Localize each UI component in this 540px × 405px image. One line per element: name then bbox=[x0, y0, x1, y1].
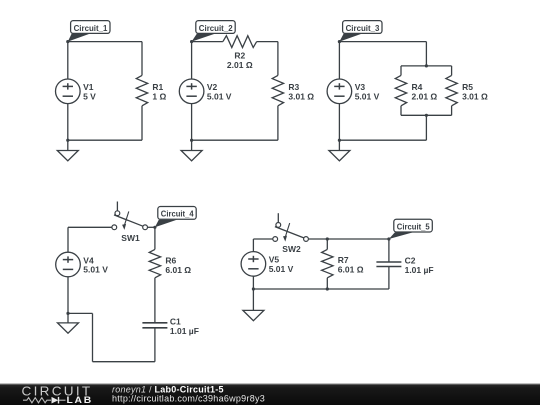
wire V5 top stub bbox=[252, 239, 254, 252]
svg-text:Circuit_4: Circuit_4 bbox=[161, 209, 194, 219]
svg-text:R5: R5 bbox=[462, 82, 473, 92]
svg-text:5.01 V: 5.01 V bbox=[269, 264, 294, 274]
wire R3 bottom bbox=[277, 106, 279, 140]
junction R7 bottom node bbox=[326, 287, 329, 290]
svg-text:2.01 Ω: 2.01 Ω bbox=[412, 92, 438, 102]
resistor R5 bbox=[446, 75, 457, 105]
wire parallel top bracket bbox=[401, 65, 452, 67]
logo diode bbox=[52, 397, 59, 404]
svg-text:http://circuitlab.com/c39ha6wp: http://circuitlab.com/c39ha6wp9r8y3 bbox=[112, 393, 265, 403]
junction V1 bottom node bbox=[66, 139, 69, 142]
svg-text:SW1: SW1 bbox=[121, 233, 140, 243]
wire R5 top stub bbox=[451, 66, 453, 76]
capacitor C2 bbox=[376, 262, 401, 267]
svg-text:C2: C2 bbox=[405, 255, 416, 265]
wire V5 to SW2 bbox=[253, 238, 272, 240]
wire bottom run C4 bbox=[93, 361, 155, 363]
wire bottom rail C2 bbox=[192, 139, 278, 141]
wire down to parallel pair bbox=[425, 42, 427, 66]
wire top rail C1 bbox=[68, 41, 142, 43]
svg-text:R7: R7 bbox=[338, 255, 349, 265]
wire R1 bottom bbox=[141, 106, 143, 140]
voltage source V4 bbox=[56, 252, 81, 277]
wire R4 bottom stub bbox=[400, 106, 402, 116]
wire top rail C3 bbox=[339, 41, 426, 43]
svg-text:5.01 V: 5.01 V bbox=[355, 92, 380, 102]
wire V3 top stub bbox=[338, 42, 340, 79]
wire down from parallel pair bbox=[425, 115, 427, 140]
junction V3 bottom node bbox=[338, 139, 341, 142]
wire bottom rail C3 bbox=[339, 139, 426, 141]
junction V5 bottom node bbox=[252, 287, 255, 290]
voltage source V1 bbox=[56, 79, 81, 104]
resistor R7 bbox=[322, 249, 333, 277]
svg-text:R3: R3 bbox=[288, 82, 299, 92]
voltage source V2 bbox=[179, 79, 204, 104]
svg-text:Circuit_1: Circuit_1 bbox=[74, 23, 108, 33]
wire R7 top stub bbox=[326, 239, 328, 249]
resistor R2 bbox=[223, 36, 257, 48]
wire up left C4 bbox=[92, 313, 94, 361]
resistor R1 bbox=[136, 75, 147, 105]
wire V4 top stub bbox=[67, 227, 69, 252]
wire bottom rail C5 bbox=[253, 288, 389, 290]
wire R5 bottom stub bbox=[451, 106, 453, 116]
svg-text:6.01 Ω: 6.01 Ω bbox=[165, 265, 191, 275]
wire C1cap down bbox=[154, 328, 156, 362]
svg-text:5.01 V: 5.01 V bbox=[207, 92, 232, 102]
svg-text:6.01 Ω: 6.01 Ω bbox=[338, 265, 364, 275]
node Circuit_1 junction bbox=[66, 40, 69, 43]
svg-text:R4: R4 bbox=[412, 82, 423, 92]
svg-text:C1: C1 bbox=[170, 316, 181, 326]
wire V4 to SW1 bbox=[68, 226, 112, 228]
wire top rail left C2 bbox=[192, 41, 223, 43]
wire V5 bottom stub bbox=[252, 276, 254, 289]
wire C2cap bottom bbox=[388, 267, 390, 290]
wire R6 to C1cap bbox=[154, 278, 156, 323]
wire node to R6 bbox=[154, 227, 156, 249]
svg-text:2.01 Ω: 2.01 Ω bbox=[227, 60, 253, 70]
junction R7 top node bbox=[326, 237, 329, 240]
wire bottom rail C1 bbox=[68, 139, 142, 141]
junction V4 bottom node bbox=[66, 312, 69, 315]
net label Circuit_3 bbox=[339, 21, 382, 42]
resistor R4 bbox=[395, 75, 406, 105]
wire C2cap top bbox=[388, 239, 390, 262]
wire V3 bottom stub bbox=[338, 104, 340, 141]
wire top rail right C2 bbox=[257, 41, 278, 43]
ground C5 bbox=[243, 289, 264, 321]
footer bar bbox=[0, 384, 540, 405]
svg-text:SW2: SW2 bbox=[282, 244, 301, 254]
junction parallel bottom node bbox=[425, 114, 428, 117]
svg-text:R6: R6 bbox=[165, 255, 176, 265]
net label Circuit_5 bbox=[389, 219, 432, 239]
net label Circuit_2 bbox=[192, 21, 236, 42]
node Circuit_3 junction bbox=[338, 40, 341, 43]
svg-text:R1: R1 bbox=[152, 82, 163, 92]
wire R7 bottom stub bbox=[326, 278, 328, 289]
net label Circuit_4 bbox=[155, 207, 196, 228]
svg-text:1.01 µF: 1.01 µF bbox=[170, 326, 199, 336]
svg-text:1.01 µF: 1.01 µF bbox=[405, 265, 434, 275]
junction V2 bottom node bbox=[190, 139, 193, 142]
wire V2 top stub bbox=[191, 42, 193, 79]
wire V1 top stub bbox=[67, 42, 69, 79]
switch SW1 bbox=[112, 202, 148, 230]
svg-text:5.01 V: 5.01 V bbox=[83, 265, 108, 275]
ground C3 bbox=[329, 140, 350, 161]
svg-text:3.01 Ω: 3.01 Ω bbox=[462, 92, 488, 102]
svg-text:Circuit_2: Circuit_2 bbox=[199, 23, 233, 33]
wire SW1 to node bbox=[148, 226, 155, 228]
wire parallel bottom bracket bbox=[401, 114, 452, 116]
capacitor C1 bbox=[142, 323, 167, 328]
ground C4 bbox=[58, 313, 79, 333]
wire V1 bottom stub bbox=[67, 104, 69, 141]
net label Circuit_1 bbox=[68, 21, 110, 42]
node Circuit_5 junction bbox=[387, 237, 390, 240]
svg-text:3.01 Ω: 3.01 Ω bbox=[288, 92, 314, 102]
resistor R6 bbox=[149, 249, 160, 277]
wire V4 bottom stub bbox=[67, 277, 69, 314]
svg-text:LAB: LAB bbox=[67, 395, 94, 405]
switch SW2 bbox=[273, 213, 309, 241]
svg-text:1 Ω: 1 Ω bbox=[152, 92, 166, 102]
wire V2 bottom stub bbox=[191, 104, 193, 141]
voltage source V3 bbox=[327, 79, 352, 104]
voltage source V5 bbox=[241, 252, 266, 277]
wire SW2 to C2cap bbox=[308, 238, 389, 240]
svg-text:5 V: 5 V bbox=[83, 92, 96, 102]
logo resistor zigzag bbox=[23, 398, 51, 403]
resistor R3 bbox=[272, 75, 283, 105]
svg-text:Circuit_5: Circuit_5 bbox=[397, 221, 430, 231]
wire R1 top bbox=[141, 42, 143, 76]
ground C1 bbox=[57, 140, 78, 161]
wire to V4 bottom node bbox=[68, 312, 93, 314]
junction parallel top node bbox=[425, 64, 428, 67]
svg-text:Circuit_3: Circuit_3 bbox=[346, 23, 380, 33]
wire R4 top stub bbox=[400, 66, 402, 76]
node Circuit_4 junction bbox=[153, 226, 156, 229]
ground C2 bbox=[181, 140, 202, 161]
node Circuit_2 junction bbox=[190, 40, 193, 43]
wire R3 top bbox=[277, 42, 279, 76]
